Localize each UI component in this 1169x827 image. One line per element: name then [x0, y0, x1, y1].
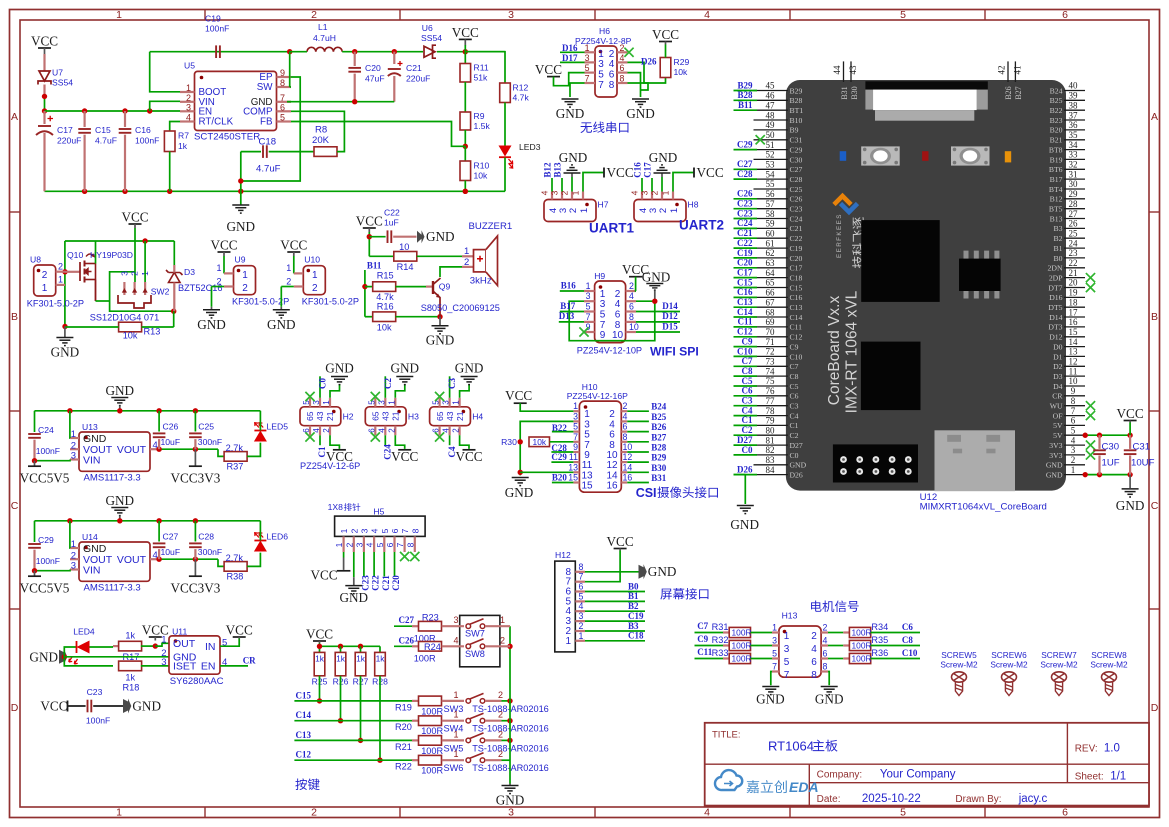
resistor R20 [419, 716, 442, 726]
svg-text:C20: C20 [391, 575, 401, 591]
svg-text:6: 6 [385, 542, 395, 547]
svg-text:3: 3 [586, 291, 591, 301]
svg-text:6: 6 [367, 428, 376, 433]
pin 14 coreboard right [1053, 337, 1085, 352]
svg-text:SW8: SW8 [465, 649, 485, 659]
x-mark H4 pin6 [435, 432, 444, 441]
svg-text:H6: H6 [599, 26, 610, 36]
svg-text:7: 7 [585, 74, 590, 84]
svg-text:4: 4 [629, 291, 634, 301]
svg-text:1: 1 [579, 208, 590, 213]
resistor R9 [460, 112, 471, 130]
svg-text:C8: C8 [902, 635, 913, 645]
wire H12 B1 [585, 600, 645, 602]
svg-text:3: 3 [359, 528, 369, 533]
pin H5-1 [343, 536, 345, 552]
svg-text:U9: U9 [235, 255, 246, 265]
svg-text:2: 2 [344, 542, 354, 547]
svg-text:52: 52 [766, 150, 775, 160]
svg-text:4.7uH: 4.7uH [313, 33, 336, 43]
svg-text:7: 7 [1071, 406, 1076, 416]
wire R14 to buzzer [417, 255, 462, 257]
svg-text:C9: C9 [790, 342, 799, 351]
svg-text:2025-10-22: 2025-10-22 [862, 793, 921, 805]
svg-text:B29: B29 [737, 80, 753, 90]
gnd flag C22 [393, 236, 416, 238]
coreboard chip3 [861, 342, 921, 411]
capacitor C18 [262, 145, 264, 158]
resistor R19 [419, 696, 442, 706]
svg-text:25: 25 [1069, 228, 1079, 238]
pin 41 coreboard top [1014, 61, 1016, 82]
wire H10 right B28 [627, 451, 649, 453]
svg-text:3: 3 [71, 561, 76, 572]
svg-text:R18: R18 [123, 683, 140, 693]
svg-text:VCC: VCC [356, 214, 383, 229]
label motor signal [811, 601, 821, 612]
svg-text:33: 33 [1069, 150, 1079, 160]
svg-text:CoreBoard Vx.x: CoreBoard Vx.x [826, 296, 843, 406]
svg-text:C24: C24 [737, 218, 753, 228]
svg-text:B23: B23 [1050, 116, 1063, 125]
svg-text:8: 8 [620, 74, 625, 84]
svg-text:2: 2 [623, 401, 628, 411]
wire coreboard gnd bus [1085, 474, 1130, 476]
svg-text:B21: B21 [1050, 136, 1063, 145]
pin 43 coreboard top [850, 61, 852, 82]
svg-text:GND: GND [83, 543, 107, 555]
capacitor C21 polarized [393, 52, 395, 64]
pin 30 coreboard right [1049, 179, 1085, 194]
svg-text:R12: R12 [513, 83, 529, 93]
svg-text:1: 1 [71, 539, 76, 550]
regulator U13 AMS1117-3.3 [79, 432, 150, 471]
svg-text:3: 3 [784, 644, 790, 655]
svg-text:2DN: 2DN [1048, 264, 1063, 273]
svg-text:2: 2 [498, 749, 503, 759]
svg-text:7: 7 [400, 528, 410, 533]
ic U11 SY6280AAC [169, 636, 220, 674]
svg-text:10k: 10k [533, 437, 547, 447]
svg-text:1: 1 [312, 270, 318, 281]
svg-text:B31: B31 [840, 86, 849, 99]
svg-text:FB: FB [260, 117, 273, 128]
wire key row C14 [294, 720, 412, 722]
svg-text:1: 1 [669, 208, 680, 213]
svg-text:5: 5 [784, 657, 790, 668]
x-mark H5 pin8 [410, 552, 419, 561]
svg-text:1X8: 1X8 [328, 502, 344, 512]
power VCC U11 left [149, 636, 162, 638]
svg-text:C1: C1 [742, 415, 753, 425]
svg-text:GND: GND [1116, 498, 1145, 513]
svg-text:Q10: Q10 [67, 250, 83, 260]
svg-text:C11: C11 [697, 647, 713, 657]
svg-text:C4: C4 [742, 405, 753, 415]
svg-text:16: 16 [623, 473, 633, 483]
svg-text:B31: B31 [651, 473, 667, 483]
svg-text:10uF: 10uF [161, 547, 181, 557]
wire R13 right [142, 326, 174, 328]
svg-text:R37: R37 [227, 461, 244, 471]
svg-text:B20: B20 [1050, 126, 1063, 135]
wire LED6 to bus [259, 521, 261, 541]
x-mark coreboard right [1086, 411, 1095, 420]
capacitor C17 polarized [43, 111, 45, 124]
ground GND under U5 [240, 191, 242, 205]
svg-text:SCREW5: SCREW5 [941, 650, 977, 660]
pin H5-2 [353, 536, 355, 552]
svg-text:C20: C20 [365, 63, 381, 73]
wire H10 pin13 [520, 471, 573, 473]
svg-text:C15: C15 [296, 690, 312, 700]
svg-text:5: 5 [380, 528, 390, 533]
led LED6 [254, 540, 266, 542]
svg-text:GND: GND [648, 564, 677, 579]
svg-text:C2: C2 [790, 431, 799, 440]
svg-text:CR: CR [1052, 392, 1063, 401]
coreboard chip1 [861, 220, 940, 302]
pin H5-3 [363, 536, 365, 552]
wire R34 to C6 [871, 632, 921, 634]
svg-text:1k: 1k [178, 141, 188, 151]
svg-text:H2: H2 [343, 411, 354, 421]
wire gnd to U11 pin2 [64, 656, 169, 658]
svg-text:3: 3 [453, 615, 458, 625]
capacitor C24 [34, 411, 36, 432]
header H2 PZ254V-12-6P [300, 407, 341, 426]
svg-text:7: 7 [772, 662, 777, 672]
wire GND pin7 to C20 C21 [287, 101, 291, 103]
svg-text:15: 15 [568, 473, 578, 483]
power VCC H8 [673, 173, 694, 192]
svg-text:GND: GND [815, 692, 844, 707]
wire H10 right B26 [627, 431, 649, 433]
svg-text:B24: B24 [1050, 86, 1063, 95]
svg-text:1: 1 [286, 263, 291, 273]
svg-text:10: 10 [612, 330, 624, 341]
svg-text:C3: C3 [742, 396, 753, 406]
svg-text:C26: C26 [737, 189, 753, 199]
svg-text:50: 50 [766, 130, 776, 140]
svg-text:C29: C29 [737, 139, 753, 149]
svg-text:C20: C20 [737, 258, 753, 268]
power VCC R29 [659, 41, 672, 43]
svg-text:2: 2 [650, 190, 660, 195]
svg-text:R7: R7 [178, 131, 189, 141]
wire H13 to R34 [828, 632, 843, 634]
svg-text:C6: C6 [902, 622, 913, 632]
svg-text:6: 6 [302, 428, 311, 433]
wire VCC to U9 [223, 256, 225, 273]
svg-text:C28: C28 [790, 175, 803, 184]
svg-text:C10: C10 [790, 352, 803, 361]
svg-text:VCC: VCC [697, 165, 724, 180]
svg-text:WU: WU [1050, 402, 1063, 411]
svg-text:4: 4 [704, 9, 710, 21]
svg-text:2: 2 [58, 262, 63, 272]
svg-text:1k: 1k [336, 654, 346, 664]
pin 52 coreboard left [754, 150, 803, 165]
ground H13 left [762, 686, 779, 688]
svg-text:C29: C29 [38, 535, 54, 545]
wire C23 left [68, 705, 86, 707]
svg-text:VCC5V5: VCC5V5 [20, 580, 70, 595]
svg-text:C29: C29 [551, 452, 567, 462]
svg-text:8: 8 [1071, 396, 1076, 406]
pin 13 coreboard right [1053, 347, 1085, 362]
pin 48 coreboard left [754, 110, 803, 125]
svg-text:SCREW6: SCREW6 [991, 650, 1027, 660]
power VCC coreboard [1124, 420, 1137, 422]
svg-text:40: 40 [1069, 81, 1079, 91]
svg-text:3: 3 [161, 657, 166, 668]
svg-text:C0: C0 [318, 378, 328, 389]
svg-text:LED6: LED6 [267, 532, 289, 542]
svg-text:10: 10 [623, 442, 633, 452]
power VCC5V5 U13 [34, 461, 36, 467]
svg-text:C24: C24 [790, 214, 803, 223]
title block [705, 723, 1149, 806]
svg-text:2: 2 [629, 281, 634, 291]
ground H6 right [632, 98, 649, 100]
svg-text:SW7: SW7 [465, 629, 485, 639]
svg-text:GND: GND [505, 485, 534, 500]
svg-text:C3: C3 [447, 378, 457, 389]
svg-text:D16: D16 [562, 43, 578, 53]
wire U14 vout net [159, 558, 218, 560]
svg-text:C21: C21 [406, 63, 422, 73]
wire H10 pin3 down [520, 421, 573, 475]
svg-text:100nF: 100nF [135, 136, 159, 146]
svg-text:4: 4 [453, 635, 458, 645]
svg-text:4: 4 [186, 113, 191, 123]
resistor R33 [729, 653, 750, 663]
x-mark H3 pin5 [371, 392, 380, 401]
svg-text:U10: U10 [304, 255, 320, 265]
wire H5 net C22 [373, 552, 375, 576]
resistor R37 [224, 452, 247, 462]
svg-text:100nF: 100nF [36, 556, 60, 566]
svg-text:100R: 100R [414, 654, 436, 664]
svg-text:VOUT: VOUT [117, 444, 147, 456]
svg-text:C12: C12 [296, 750, 312, 760]
svg-text:VCC: VCC [652, 27, 679, 42]
svg-text:4: 4 [823, 636, 828, 646]
svg-text:BT6: BT6 [1049, 165, 1063, 174]
wire H9 pin3 loop [569, 301, 655, 341]
svg-text:D16: D16 [1049, 293, 1062, 302]
svg-text:4: 4 [630, 190, 640, 195]
svg-text:5V: 5V [1053, 431, 1063, 440]
svg-text:B13: B13 [1050, 214, 1063, 223]
svg-text:6: 6 [390, 528, 400, 533]
svg-text:C19: C19 [737, 248, 753, 258]
wire C26 row [394, 645, 412, 647]
svg-text:2: 2 [498, 690, 503, 700]
svg-text:jacy.c: jacy.c [1018, 793, 1048, 805]
svg-text:4: 4 [540, 190, 550, 195]
svg-text:B17: B17 [1050, 175, 1063, 184]
capacitor C16 [124, 111, 126, 127]
resistor R8 [314, 147, 337, 157]
svg-text:C15: C15 [790, 283, 803, 292]
switch SW7 [442, 625, 464, 627]
coreboard led orange [1005, 151, 1011, 162]
svg-text:GND: GND [29, 649, 58, 664]
svg-text:43: 43 [445, 411, 455, 421]
coreboard top connector [865, 81, 987, 89]
svg-text:29: 29 [1069, 189, 1079, 199]
svg-text:71: 71 [766, 337, 775, 347]
wire H6 pin7 gnd [570, 83, 585, 97]
svg-text:B12: B12 [543, 162, 553, 178]
svg-text:D12: D12 [662, 311, 678, 321]
wire VCC to R14 [369, 255, 394, 257]
resistor R23 [419, 621, 442, 631]
svg-text:48: 48 [766, 110, 776, 120]
svg-text:C13: C13 [790, 303, 803, 312]
svg-text:4.7uF: 4.7uF [95, 136, 117, 146]
svg-text:VCC: VCC [40, 698, 67, 713]
svg-text:GND: GND [391, 361, 420, 376]
svg-text:10k: 10k [474, 171, 489, 181]
svg-text:23: 23 [1069, 248, 1079, 258]
svg-text:4: 4 [370, 528, 380, 533]
svg-text:U5: U5 [184, 61, 195, 71]
svg-text:C7: C7 [790, 362, 799, 371]
wire R8 to COMP [291, 111, 344, 151]
wire EP loop [241, 77, 300, 191]
svg-text:C21: C21 [737, 228, 753, 238]
wire H12 B0 [585, 591, 645, 593]
wire Q9 collector to buzzer [440, 267, 462, 277]
svg-text:100R: 100R [732, 628, 752, 638]
coreboard led red [922, 151, 928, 161]
svg-text:5: 5 [280, 113, 285, 123]
svg-text:10: 10 [1069, 376, 1079, 386]
wire Q10 drain down [95, 280, 97, 302]
capacitor C28 [194, 521, 196, 542]
svg-text:53: 53 [766, 160, 776, 170]
svg-text:1: 1 [565, 636, 571, 647]
svg-text:81: 81 [766, 435, 775, 445]
pin 78 coreboard left [734, 405, 799, 420]
wire LED4 to R17 [90, 646, 114, 648]
pin 83 coreboard left [754, 455, 807, 470]
svg-text:5: 5 [772, 649, 777, 659]
svg-text:6: 6 [811, 657, 817, 668]
wire H12 B2 [585, 610, 645, 612]
svg-text:VCC: VCC [607, 165, 634, 180]
svg-text:C31: C31 [1133, 442, 1151, 453]
svg-text:1: 1 [58, 275, 63, 285]
svg-text:U13: U13 [82, 422, 98, 432]
screw SCREW5 [940, 650, 978, 696]
svg-text:80: 80 [766, 425, 776, 435]
svg-text:B0: B0 [628, 581, 639, 591]
wire R35 to C8 [871, 645, 921, 647]
svg-text:R29: R29 [674, 57, 690, 67]
svg-text:2.7k: 2.7k [226, 553, 244, 563]
svg-text:1: 1 [42, 283, 48, 294]
pin 5 coreboard right [1053, 425, 1085, 440]
svg-text:C21: C21 [381, 575, 391, 591]
wire VCC to pin5 [554, 73, 585, 86]
svg-text:100R: 100R [852, 654, 872, 664]
svg-text:46: 46 [766, 91, 776, 101]
svg-text:B24: B24 [651, 402, 667, 412]
resistor R11 [460, 64, 471, 83]
svg-text:C8: C8 [742, 366, 753, 376]
svg-text:100R: 100R [421, 726, 443, 736]
svg-text:D: D [1151, 702, 1159, 714]
pin 4 coreboard right [1049, 435, 1085, 450]
svg-text:C14: C14 [790, 313, 803, 322]
capacitor C15 [83, 111, 85, 127]
resistor R34 [849, 627, 870, 637]
svg-text:R35: R35 [871, 635, 888, 645]
pin H5-4 [373, 536, 375, 552]
svg-text:1: 1 [784, 631, 790, 642]
svg-text:C21: C21 [790, 224, 803, 233]
svg-text:GND: GND [455, 361, 484, 376]
screw SCREW6 [990, 650, 1028, 696]
svg-text:1: 1 [464, 246, 469, 257]
svg-text:GND: GND [556, 106, 585, 121]
resistor R32 [729, 640, 750, 650]
wire gate bus [65, 240, 174, 242]
svg-text:2: 2 [658, 208, 669, 213]
capacitor C22 [369, 236, 385, 238]
svg-text:3: 3 [640, 190, 650, 195]
capacitor C20 [354, 52, 356, 66]
svg-text:1: 1 [579, 631, 584, 641]
svg-text:17: 17 [1069, 307, 1079, 317]
svg-text:Screw-M2: Screw-M2 [990, 660, 1028, 670]
pin 6 coreboard right [1053, 416, 1085, 431]
pin 82 coreboard left [734, 445, 799, 460]
pin 28 coreboard right [1049, 199, 1085, 214]
svg-text:C1: C1 [790, 421, 799, 430]
pin 24 coreboard right [1054, 238, 1085, 253]
header H4 PZ254V-12-6P [430, 407, 471, 426]
wire VCC node buzzer [368, 232, 370, 256]
svg-text:BT1: BT1 [790, 106, 804, 115]
wire C23 right [93, 705, 123, 707]
pin 1 coreboard right [1046, 465, 1085, 480]
svg-text:SY6280AAC: SY6280AAC [170, 676, 224, 687]
capacitor C23 [87, 700, 89, 713]
svg-text:C15: C15 [737, 277, 753, 287]
led LED5 [254, 430, 266, 432]
wire R32 to H13 [751, 645, 773, 647]
svg-text:R22: R22 [395, 762, 412, 772]
svg-text:1k: 1k [125, 631, 135, 641]
svg-text:U14: U14 [82, 532, 98, 542]
svg-text:7: 7 [586, 312, 591, 322]
svg-text:B29: B29 [790, 86, 803, 95]
wire B20 to H10 pin15 [552, 482, 574, 484]
svg-text:1.5k: 1.5k [474, 121, 491, 131]
x-mark coreboard right [1086, 450, 1095, 459]
svg-text:GND: GND [106, 383, 135, 398]
svg-text:U11: U11 [172, 626, 187, 636]
svg-text:6: 6 [623, 422, 628, 432]
svg-text:3: 3 [186, 102, 191, 112]
pin 55 coreboard left [754, 179, 803, 194]
svg-text:15: 15 [1069, 327, 1079, 337]
